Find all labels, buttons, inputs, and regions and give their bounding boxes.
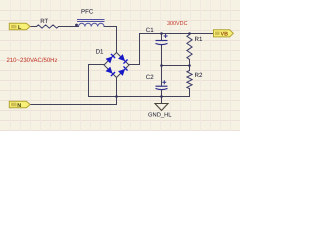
svg-text:R2: R2 [195, 72, 203, 79]
svg-text:300VDC: 300VDC [167, 20, 188, 27]
svg-text:210~230VAC/50Hz: 210~230VAC/50Hz [7, 57, 58, 64]
svg-text:N: N [17, 103, 21, 109]
svg-text:C2: C2 [146, 74, 154, 81]
svg-text:RT: RT [40, 18, 48, 25]
svg-text:R1: R1 [195, 36, 203, 43]
svg-text:D1: D1 [96, 48, 104, 55]
svg-text:PFC: PFC [81, 8, 94, 15]
svg-text:C1: C1 [146, 27, 154, 34]
svg-text:GND_HL: GND_HL [148, 112, 172, 119]
svg-text:VB: VB [221, 32, 229, 38]
